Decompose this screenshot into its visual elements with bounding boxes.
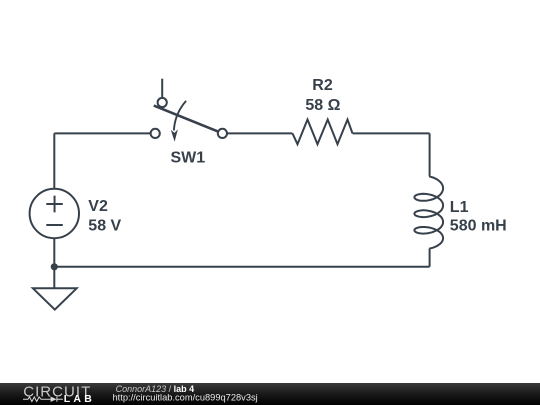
wire node to ground: [53, 267, 55, 289]
svg-text:http://circuitlab.com/cu899q72: http://circuitlab.com/cu899q728v3sj: [113, 392, 258, 402]
wire left vertical (corner to V2 top): [53, 133, 55, 188]
label R2 value: [305, 77, 340, 114]
wire bottom horizontal: [54, 266, 429, 268]
wire V2 bottom to node: [53, 239, 55, 267]
svg-text:LAB: LAB: [64, 393, 95, 405]
footer bar: [0, 383, 540, 405]
voltage source V2: [30, 189, 79, 238]
wire switch to resistor: [227, 132, 293, 134]
logo circuit glyph (resistor + diode): [23, 397, 63, 402]
resistor R2: [293, 120, 353, 145]
wire top-left horizontal: [54, 132, 150, 134]
wire resistor to top-right corner: [353, 132, 430, 134]
ground: [33, 288, 77, 309]
node (junction dot): [51, 263, 58, 270]
label V2 value: [88, 198, 121, 235]
switch SW1: [151, 79, 227, 138]
switch SW1 actuation arrow: [171, 101, 186, 142]
label L1 value: [450, 199, 507, 234]
inductor L1: [414, 133, 443, 266]
